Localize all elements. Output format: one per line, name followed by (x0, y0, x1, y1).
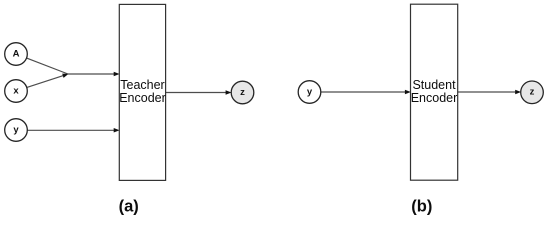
node z (left diagram) (231, 81, 254, 104)
wire y to Student Encoder (321, 91, 406, 93)
svg-text:z: z (240, 87, 245, 98)
svg-text:Encoder: Encoder (411, 91, 458, 105)
arrowhead at junction (62, 72, 69, 78)
arrowhead into Student Encoder (405, 90, 411, 95)
svg-text:Student: Student (412, 78, 456, 92)
wire A to junction (26, 58, 68, 74)
arrowhead into Teacher Encoder (lower) (114, 128, 120, 133)
Student Encoder box (411, 4, 458, 180)
wire Teacher Encoder to z (166, 92, 227, 94)
node A (5, 43, 28, 66)
arrowhead into z (right diagram) (515, 90, 521, 95)
svg-text:Encoder: Encoder (119, 91, 166, 105)
node z (right diagram) (521, 81, 544, 104)
svg-text:A: A (13, 48, 20, 59)
Teacher Encoder box (119, 4, 165, 180)
svg-text:(b): (b) (411, 198, 432, 216)
svg-text:y: y (13, 124, 19, 135)
svg-text:(a): (a) (119, 198, 139, 216)
svg-text:Teacher: Teacher (120, 78, 164, 92)
wire x to junction (27, 75, 67, 88)
node x (5, 80, 28, 103)
svg-text:y: y (307, 86, 313, 97)
wire y to Teacher Encoder (27, 129, 114, 131)
arrowhead into z (left diagram) (226, 90, 232, 95)
svg-text:x: x (13, 85, 19, 96)
arrowhead into Teacher Encoder (upper) (114, 72, 120, 77)
node y (5, 119, 28, 142)
node y (right diagram) (298, 81, 321, 104)
svg-text:z: z (530, 87, 535, 98)
wire junction to Teacher Encoder (68, 73, 115, 75)
wire Student Encoder to z (458, 91, 516, 93)
